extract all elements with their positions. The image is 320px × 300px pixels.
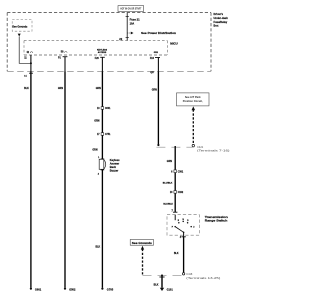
svg-text:ACCESS: ACCESS (98, 51, 107, 54)
junction ground wire 1 (30, 62, 32, 64)
driver's under-dash fuse/relay box dashed border (7, 13, 211, 72)
keyless answer back buzzer (99, 159, 106, 169)
transmission range switch dashed box (167, 215, 199, 236)
svg-text:BLK: BLK (174, 253, 179, 255)
connector C421 dashed line (156, 146, 194, 148)
svg-text:G705: G705 (107, 288, 114, 292)
node HOT IN ON OR START label box (118, 6, 144, 12)
connector C421 label (197, 145, 230, 153)
transmission range switch pin 4 (180, 236, 186, 239)
wire 3 upper segment (101, 57, 103, 71)
wire 1 (BLK ground wire) (30, 71, 32, 287)
in-line connector 10 C601 on wire 3 (97, 107, 111, 111)
svg-text:See Grounds: See Grounds (132, 242, 153, 245)
svg-text:Back: Back (110, 165, 117, 169)
svg-text:GRN: GRN (167, 161, 172, 163)
svg-text:F20: F20 (95, 58, 100, 60)
wire from see-grounds reference to ground wire junction (19, 37, 31, 64)
svg-text:(Terminals 13-25): (Terminals 13-25) (186, 277, 220, 280)
connector F20 terminal (wire 3) (95, 57, 105, 60)
svg-text:Buzzer: Buzzer (110, 169, 119, 173)
svg-text:C751: C751 (105, 134, 111, 136)
svg-text:Range Switch: Range Switch (205, 219, 228, 223)
fuse F21 (Fuse 21 10A) (126, 13, 141, 41)
wire 3 (buzzer wire upper) (101, 71, 103, 159)
keyless access pin label (wire 3 MICU pin) (97, 50, 108, 54)
svg-text:See A/T Park: See A/T Park (185, 95, 201, 99)
buzzer pin 2 (98, 170, 104, 176)
svg-text:Keyless: Keyless (110, 158, 120, 162)
wire 3 lower segment (BLK to ground) (101, 170, 103, 288)
svg-text:Answer: Answer (110, 162, 119, 166)
svg-text:Fuse 21: Fuse 21 (130, 18, 141, 22)
driver's under-dash fuse/relay box name label (214, 12, 229, 27)
dashed reference wire to A/T park position circuit (192, 106, 196, 146)
wire 1 upper segment (inside fuse box) (30, 55, 32, 71)
svg-text:GRN: GRN (58, 88, 63, 90)
ground terminal G601 (wire 1) (30, 288, 42, 292)
svg-text:Transmission: Transmission (205, 215, 229, 219)
svg-text:BLK: BLK (24, 88, 29, 90)
wire to transmission range switch (174, 146, 176, 212)
svg-text:GRN: GRN (92, 150, 97, 152)
see grounds reference box (bottom) (130, 240, 153, 246)
connector C1 label at fuse box exit (wire 1) (24, 73, 33, 77)
svg-text:C601: C601 (105, 108, 111, 110)
svg-text:C421: C421 (197, 145, 204, 149)
svg-text:G502: G502 (69, 288, 76, 292)
svg-text:C418: C418 (186, 273, 193, 276)
connector P1 terminal (wire 2) (58, 57, 67, 60)
svg-text:See Power Distribution: See Power Distribution (141, 32, 177, 35)
svg-text:Box: Box (214, 24, 219, 28)
svg-text:C102: C102 (178, 192, 184, 194)
connector C418 dashed line (143, 274, 183, 276)
pin 42 label (wire 1 MICU pin) (27, 51, 33, 54)
svg-text:GRN: GRN (152, 89, 157, 91)
svg-text:G101: G101 (167, 289, 174, 292)
wire from transmission range switch to C418 (183, 237, 185, 273)
dashed reference wire from see grounds box (141, 246, 144, 275)
connector C418 label (186, 273, 220, 280)
svg-text:(Terminals 7-16): (Terminals 7-16) (197, 149, 230, 152)
terminal circle at C418 (182, 273, 184, 275)
svg-text:Fuse/Relay: Fuse/Relay (214, 20, 228, 24)
svg-text:2: 2 (193, 227, 194, 229)
svg-text:GRN: GRN (96, 88, 101, 90)
see A/T park position circuit reference box (177, 93, 210, 106)
svg-text:GRN: GRN (94, 120, 99, 122)
see power distribution reference arrow (127, 32, 176, 35)
ground wire junction on C418 (161, 274, 163, 276)
svg-text:Position Circuit,: Position Circuit, (183, 99, 203, 103)
wire 4 terminal dot at C421 (157, 144, 159, 146)
wire 2 upper segment (64, 57, 66, 72)
in-line connector 6 C301 (171, 170, 184, 174)
keyless answer back buzzer label (110, 158, 120, 173)
svg-text:BLK: BLK (154, 284, 159, 286)
svg-text:GRS: GRS (154, 52, 159, 54)
svg-text:Driver's: Driver's (214, 12, 224, 16)
svg-text:BLK: BLK (95, 247, 100, 249)
svg-text:10A: 10A (130, 23, 135, 26)
ground terminal G705 (wire 3) (101, 288, 113, 292)
svg-text:HOT IN ON OR START: HOT IN ON OR START (120, 8, 141, 11)
svg-text:See Grounds: See Grounds (12, 25, 28, 28)
see grounds reference box (top left) (12, 20, 32, 32)
in-line connector 17 C751 on wire 3 (97, 133, 111, 137)
transmission range switch label (205, 215, 229, 223)
svg-text:Under-dash: Under-dash (214, 16, 229, 20)
svg-text:C301: C301 (178, 171, 184, 173)
pin 58 label (wire 2 MICU pin) (61, 52, 67, 54)
svg-text:BLU/BLK: BLU/BLK (163, 204, 173, 206)
buzzer pin 1 (98, 157, 104, 159)
wire 4 (GRN to C421) (157, 71, 159, 144)
MICU dashed box (24, 41, 167, 55)
svg-text:G601: G601 (35, 288, 42, 292)
wire 4 upper segment (157, 58, 159, 72)
ground terminal G502 (wire 2) (64, 288, 76, 292)
transmission range switch pin 7 (172, 210, 178, 212)
see grounds reference arrow (18, 34, 21, 37)
ground G101 symbol (160, 288, 174, 292)
transmission range switch internals (172, 215, 195, 237)
svg-text:MICU: MICU (170, 42, 177, 46)
wire 2 (GRN wire) (64, 71, 66, 287)
connector F16 terminal (wire 4) (150, 58, 160, 61)
ground wire stub (159, 275, 164, 288)
in-line connector 10 C102 (170, 191, 184, 195)
svg-text:BLU/BLK: BLU/BLK (163, 182, 173, 184)
